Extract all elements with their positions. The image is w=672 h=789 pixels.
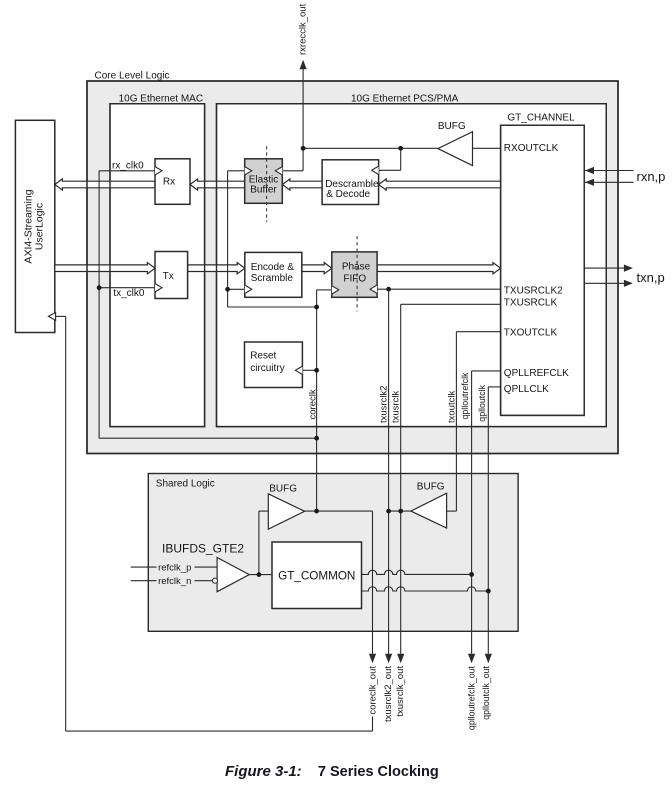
svg-text:Buffer: Buffer: [250, 185, 277, 196]
svg-text:txusrclk_out: txusrclk_out: [395, 666, 406, 717]
svg-text:qplloutclk: qplloutclk: [477, 384, 487, 421]
svg-text:IBUFDS_GTE2: IBUFDS_GTE2: [162, 542, 244, 556]
svg-text:BUFG: BUFG: [438, 121, 466, 132]
svg-text:Figure 3-1:: Figure 3-1:: [225, 763, 302, 780]
svg-text:10G Ethernet MAC: 10G Ethernet MAC: [119, 94, 203, 105]
svg-text:Phase: Phase: [342, 262, 371, 273]
svg-text:TXOUTCLK: TXOUTCLK: [504, 327, 558, 338]
svg-text:txn,p: txn,p: [637, 270, 665, 285]
svg-text:10G Ethernet PCS/PMA: 10G Ethernet PCS/PMA: [351, 94, 459, 105]
svg-text:tx_clk0: tx_clk0: [113, 288, 145, 299]
svg-text:FIFO: FIFO: [343, 274, 366, 285]
svg-text:Tx: Tx: [163, 271, 174, 282]
svg-text:rx_clk0: rx_clk0: [112, 160, 144, 171]
svg-text:BUFG: BUFG: [269, 484, 297, 495]
svg-text:txusrclk2: txusrclk2: [379, 386, 390, 423]
svg-text:GT_CHANNEL: GT_CHANNEL: [507, 113, 575, 124]
svg-text:qplloutclk_out: qplloutclk_out: [481, 665, 491, 719]
svg-text:refclk_n: refclk_n: [158, 576, 191, 587]
svg-text:rxrecclk_out: rxrecclk_out: [298, 3, 309, 55]
svg-text:GT_COMMON: GT_COMMON: [278, 570, 355, 583]
svg-text:qplloutrefclk_out: qplloutrefclk_out: [467, 665, 477, 730]
svg-text:Reset: Reset: [250, 350, 276, 361]
svg-text:Rx: Rx: [163, 177, 175, 188]
svg-text:Scramble: Scramble: [251, 273, 294, 284]
svg-text:txusrclk: txusrclk: [391, 391, 402, 423]
svg-text:Shared Logic: Shared Logic: [156, 479, 215, 490]
svg-text:& Decode: & Decode: [326, 189, 370, 200]
svg-text:RXOUTCLK: RXOUTCLK: [504, 143, 559, 154]
svg-text:txusrclk2_out: txusrclk2_out: [383, 666, 394, 722]
svg-text:7 Series Clocking: 7 Series Clocking: [318, 764, 439, 780]
svg-text:TXUSRCLK2: TXUSRCLK2: [504, 286, 563, 297]
svg-text:QPLLREFCLK: QPLLREFCLK: [504, 368, 569, 379]
svg-text:refclk_p: refclk_p: [158, 562, 191, 573]
svg-text:rxn,p: rxn,p: [637, 169, 666, 184]
svg-text:circuitry: circuitry: [250, 363, 284, 374]
svg-text:QPLLCLK: QPLLCLK: [504, 384, 549, 395]
svg-text:txoutclk: txoutclk: [446, 391, 457, 423]
svg-text:coreclk: coreclk: [308, 389, 319, 419]
svg-text:qplloutrefclk: qplloutrefclk: [460, 372, 470, 420]
svg-text:BUFG: BUFG: [417, 481, 445, 492]
svg-text:TXUSRCLK: TXUSRCLK: [504, 297, 558, 308]
svg-text:Core Level Logic: Core Level Logic: [95, 71, 170, 82]
svg-text:coreclk_out: coreclk_out: [368, 666, 379, 715]
svg-text:UserLogic: UserLogic: [34, 203, 46, 250]
svg-text:Encode &: Encode &: [251, 262, 295, 273]
